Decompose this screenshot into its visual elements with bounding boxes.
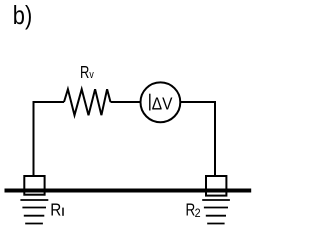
svg-text:ΔV: ΔV — [152, 93, 173, 113]
label R1 — [50, 199, 63, 219]
svg-text:R: R — [50, 199, 61, 219]
svg-text:v: v — [89, 69, 93, 81]
voltmeter label |ΔV — [150, 93, 173, 113]
ground right — [202, 200, 230, 224]
electrode left rectangle — [24, 176, 44, 195]
resistor Rv — [64, 89, 111, 115]
label Rv — [80, 63, 94, 83]
svg-text:b): b) — [13, 1, 32, 30]
ground left — [20, 200, 48, 224]
voltmeter U1 circle — [141, 82, 181, 122]
label R2 — [186, 201, 201, 220]
earth line — [5, 189, 252, 193]
wire resistor to meter — [111, 101, 141, 103]
svg-text:R: R — [80, 63, 89, 83]
electrode right rectangle — [206, 176, 226, 196]
wire left vertical — [33, 101, 35, 176]
svg-text:2: 2 — [195, 208, 201, 221]
wire right vertical — [214, 101, 216, 176]
wire left-top horizontal — [34, 101, 65, 103]
wire meter to right corner — [180, 101, 215, 103]
